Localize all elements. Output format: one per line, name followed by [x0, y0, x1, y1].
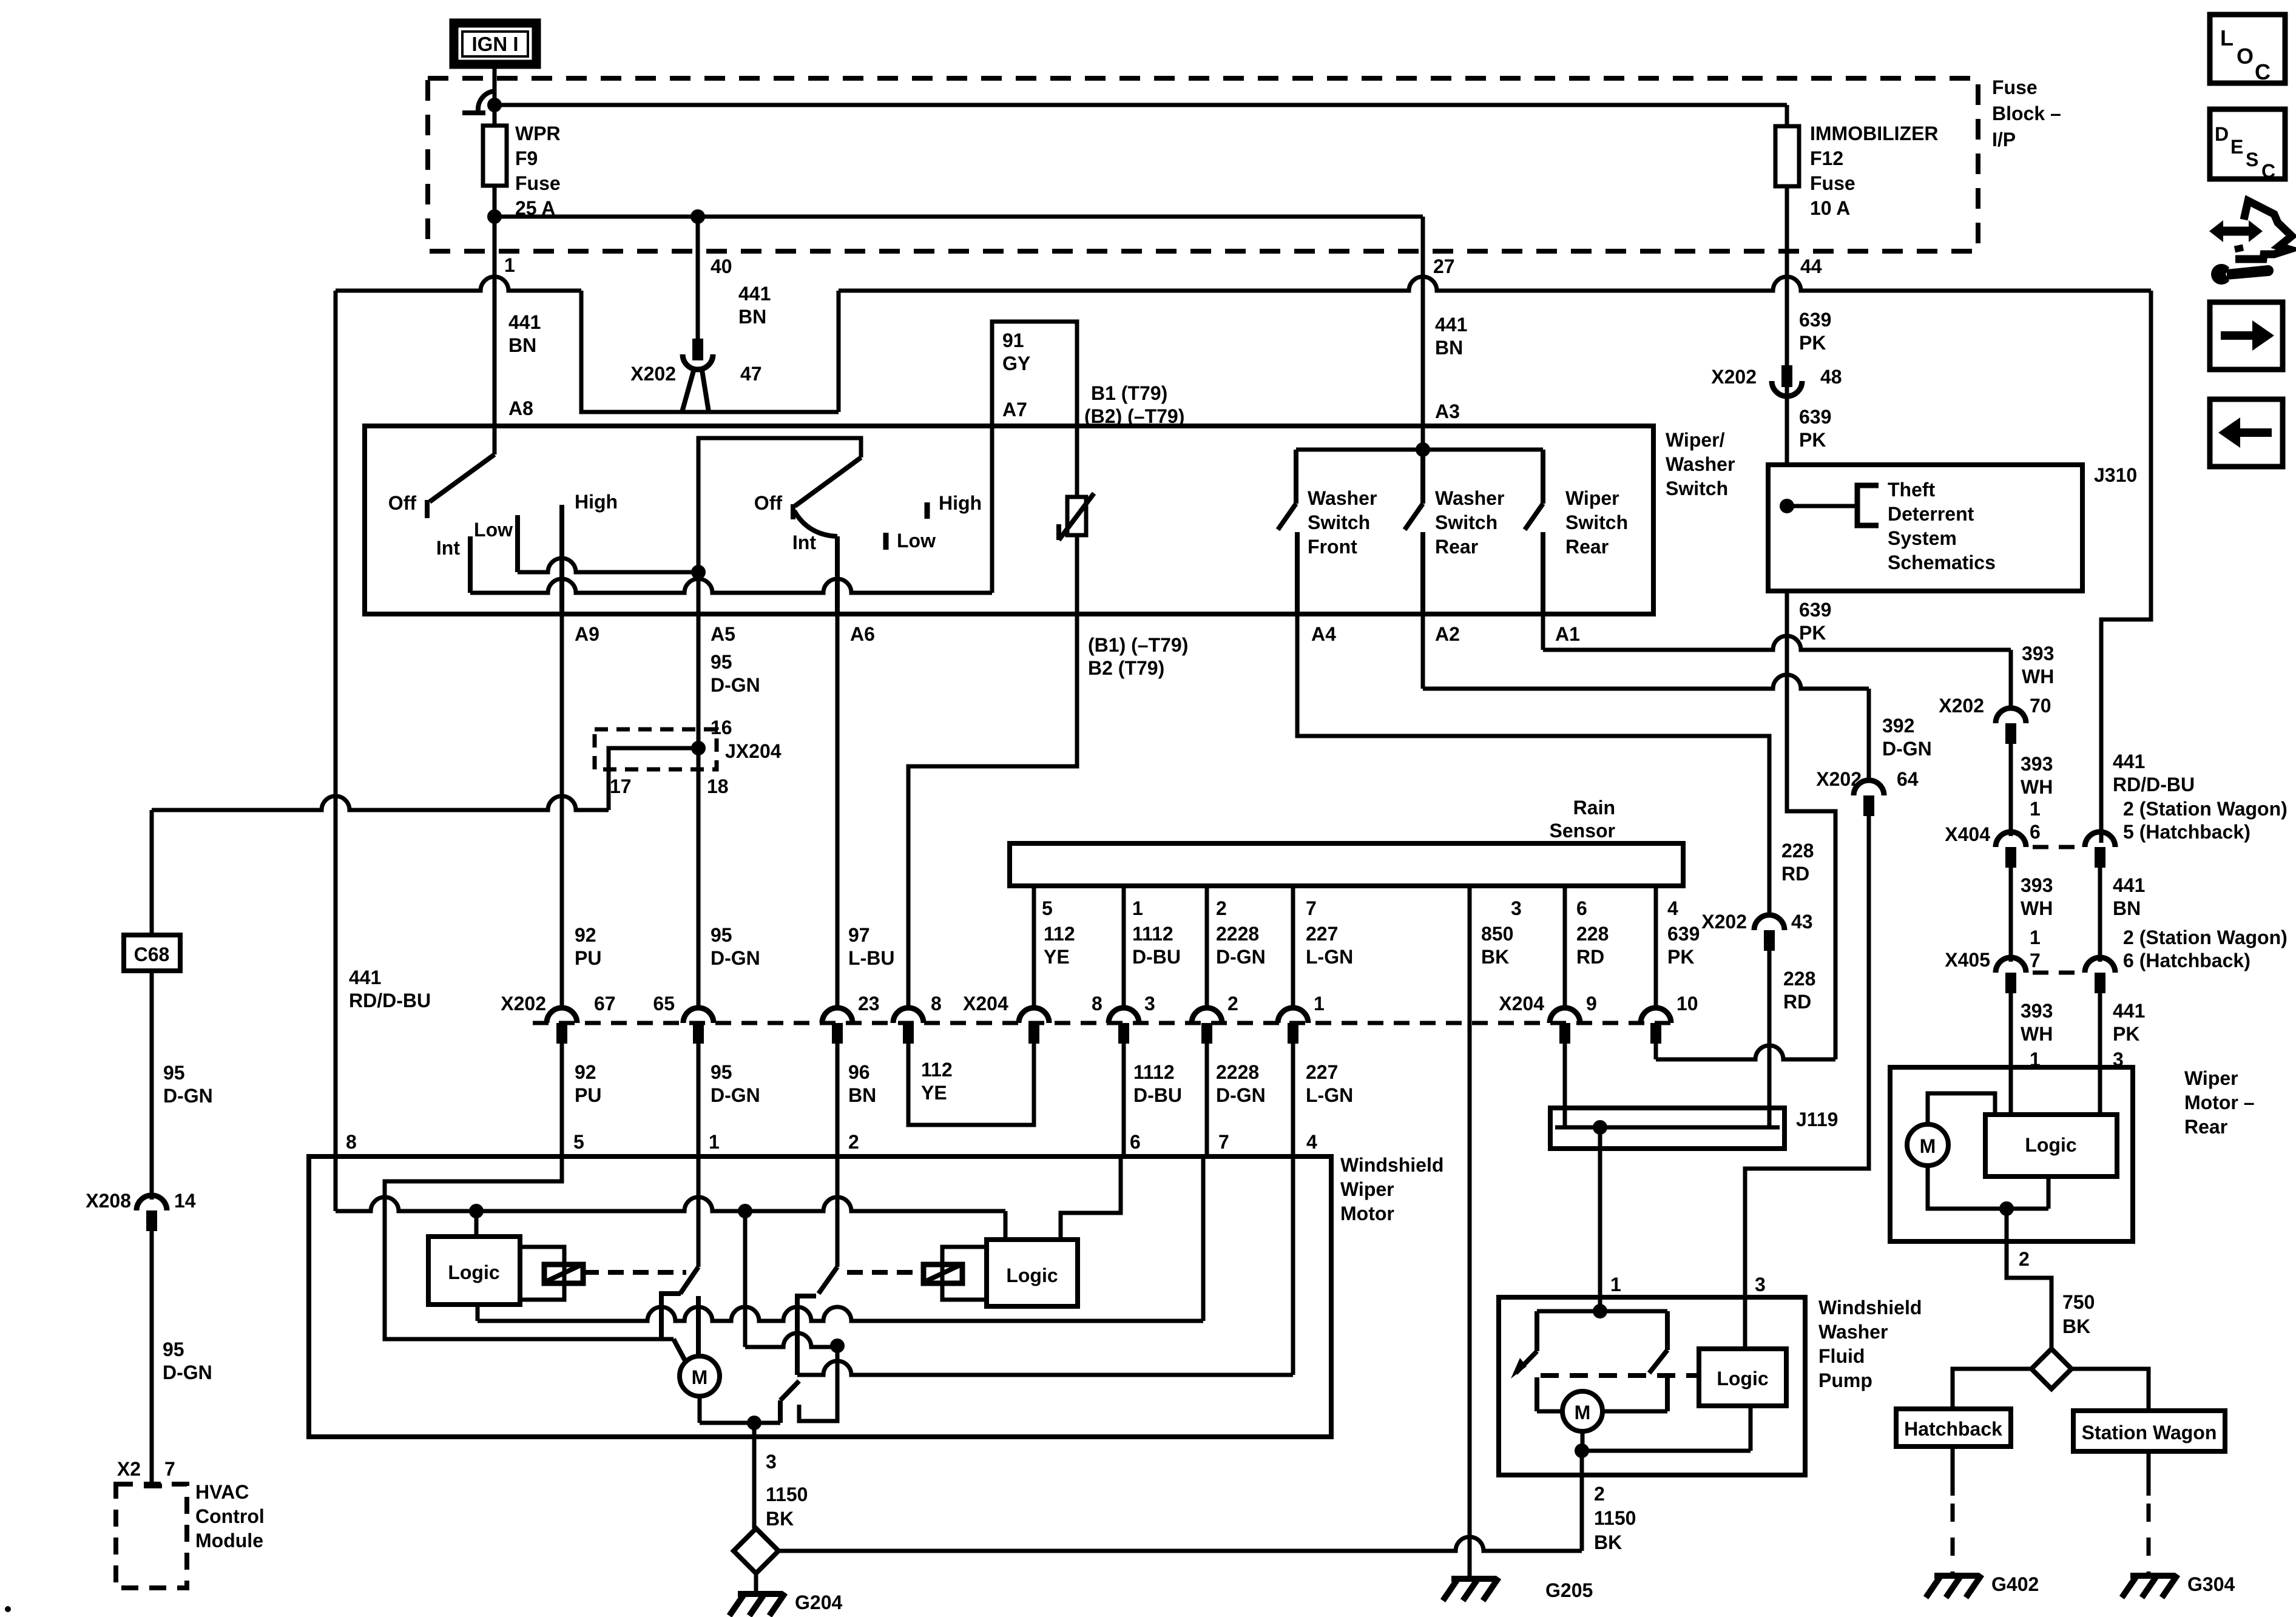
- svg-text:Wiper/: Wiper/: [1666, 429, 1725, 451]
- rain sensor pin 6: [1563, 886, 1567, 1008]
- pin2 to park contact: [799, 1347, 837, 1421]
- svg-text:850: 850: [1481, 923, 1513, 945]
- svg-text:1: 1: [1610, 1274, 1621, 1295]
- svg-text:HVAC: HVAC: [195, 1481, 249, 1503]
- svg-text:Off: Off: [754, 492, 783, 514]
- fuse F12 IMMOBILIZER 10A: [1785, 105, 1789, 126]
- svg-text:E: E: [2230, 136, 2243, 158]
- svg-text:3: 3: [1511, 897, 1522, 919]
- icon previous page arrow: [2210, 399, 2283, 467]
- svg-text:BN: BN: [1435, 337, 1463, 359]
- svg-text:WH: WH: [2021, 776, 2053, 798]
- svg-text:PK: PK: [2113, 1023, 2139, 1045]
- wire 27 441 BN to A3: [1421, 251, 1425, 450]
- svg-text:23: 23: [858, 993, 880, 1014]
- IGN feed bus: [495, 103, 1787, 107]
- svg-text:Rear: Rear: [1565, 536, 1609, 558]
- svg-text:D-GN: D-GN: [711, 1084, 760, 1106]
- thermistor (rain sensor element): [1067, 497, 1086, 535]
- svg-text:PK: PK: [1799, 332, 1826, 354]
- svg-text:1150: 1150: [1594, 1507, 1636, 1529]
- svg-text:A9: A9: [575, 623, 599, 645]
- wire 393 WH to X404: [2009, 744, 2013, 836]
- svg-text:M: M: [692, 1366, 708, 1388]
- svg-text:X202: X202: [1711, 366, 1757, 388]
- svg-text:44: 44: [1800, 255, 1822, 277]
- bus to fuses 27/40: [495, 215, 1423, 219]
- svg-text:1112: 1112: [1132, 923, 1173, 945]
- connector row dashed line: [533, 1021, 1681, 1025]
- rain sensor box: [1010, 843, 1683, 886]
- contact High: [925, 502, 930, 519]
- svg-text:8: 8: [1092, 993, 1102, 1014]
- svg-text:WPR: WPR: [515, 123, 561, 144]
- connector X204 10: [1641, 1008, 1671, 1023]
- pump logic: [1699, 1349, 1786, 1406]
- A7 loop 91 GY: [992, 322, 1077, 497]
- svg-text:X204: X204: [1499, 993, 1544, 1014]
- svg-text:92: 92: [575, 924, 596, 946]
- svg-text:2 (Station Wagon): 2 (Station Wagon): [2123, 927, 2288, 948]
- svg-text:G204: G204: [795, 1592, 842, 1613]
- svg-text:BK: BK: [1594, 1531, 1622, 1553]
- svg-text:RD/D-BU: RD/D-BU: [349, 990, 431, 1011]
- svg-text:Block –: Block –: [1992, 103, 2061, 124]
- svg-text:PK: PK: [1667, 946, 1694, 968]
- wire 393 WH to X405: [2009, 868, 2013, 962]
- branch station wagon: [2071, 1369, 2149, 1411]
- svg-text:X405: X405: [1945, 949, 1990, 971]
- svg-text:112: 112: [1044, 923, 1075, 945]
- svg-text:Washer: Washer: [1666, 453, 1735, 475]
- svg-text:40: 40: [711, 255, 732, 277]
- wire 392 to washer pump 3: [1745, 816, 1869, 1349]
- svg-text:95: 95: [163, 1062, 185, 1084]
- svg-text:Switch: Switch: [1666, 478, 1728, 499]
- splice block J119: [1550, 1108, 1784, 1149]
- svg-text:X2: X2: [117, 1458, 141, 1480]
- detent curve to Int: [794, 511, 837, 536]
- svg-text:Washer: Washer: [1435, 487, 1504, 509]
- wire A4 228 RD: [1297, 614, 1769, 915]
- rain sensor pin 4: [1654, 886, 1658, 1008]
- svg-text:G205: G205: [1545, 1579, 1593, 1601]
- connector X202 47: [692, 339, 703, 360]
- svg-text:PK: PK: [1799, 622, 1826, 644]
- relay 1: [520, 1247, 564, 1300]
- logic module 1: [428, 1237, 520, 1305]
- wire 18 95 D-GN: [697, 748, 701, 1008]
- svg-text:C: C: [2255, 59, 2271, 84]
- fuse block I/P dashed box: [428, 78, 1978, 251]
- svg-text:A5: A5: [711, 623, 735, 645]
- relay 2 body: [942, 1247, 987, 1300]
- svg-text:O: O: [2237, 44, 2254, 69]
- svg-text:6: 6: [1130, 1131, 1141, 1153]
- internal top bus: [334, 1156, 338, 1211]
- svg-text:Module: Module: [195, 1530, 263, 1551]
- svg-text:441: 441: [2113, 1000, 2145, 1022]
- svg-text:6 (Hatchback): 6 (Hatchback): [2123, 950, 2250, 971]
- ground G205: [1451, 1576, 1496, 1582]
- svg-text:C: C: [2261, 160, 2275, 182]
- svg-text:9: 9: [1586, 993, 1597, 1014]
- svg-text:112: 112: [921, 1059, 953, 1081]
- svg-text:5: 5: [573, 1131, 584, 1153]
- svg-text:(B1) (–T79): (B1) (–T79): [1088, 634, 1188, 656]
- svg-text:BK: BK: [1481, 946, 1509, 968]
- svg-text:A8: A8: [508, 397, 533, 419]
- svg-text:M: M: [1920, 1135, 1936, 1157]
- wire 228 RD to J119: [1768, 951, 1772, 1127]
- svg-text:RD: RD: [1576, 946, 1604, 968]
- svg-text:Hatchback: Hatchback: [1904, 1418, 2002, 1440]
- connector X202 65: [683, 1008, 714, 1023]
- svg-text:392: 392: [1882, 715, 1914, 737]
- svg-text:BK: BK: [2062, 1315, 2090, 1337]
- svg-text:65: 65: [653, 993, 675, 1014]
- ground run to G204: [778, 1537, 1582, 1551]
- svg-text:Wiper: Wiper: [1340, 1178, 1394, 1200]
- rain sensor pin 3 850 BK to G205: [1468, 886, 1472, 1578]
- svg-text:228: 228: [1781, 840, 1814, 862]
- low bus to A5: [518, 558, 698, 572]
- svg-text:441: 441: [738, 283, 771, 305]
- svg-text:2: 2: [1227, 993, 1238, 1014]
- wire 44 639 PK: [1785, 186, 1789, 251]
- svg-text:639: 639: [1667, 923, 1700, 945]
- svg-text:A3: A3: [1435, 400, 1460, 422]
- svg-text:Switch: Switch: [1435, 511, 1497, 533]
- svg-text:70: 70: [2030, 695, 2051, 717]
- inline harness C68: [124, 935, 180, 971]
- connector X204 2: [1192, 1008, 1222, 1023]
- svg-text:YE: YE: [1044, 946, 1070, 968]
- svg-text:1: 1: [2030, 798, 2041, 820]
- svg-text:Off: Off: [388, 492, 417, 514]
- connector X404: [1996, 832, 2026, 847]
- wiper/washer switch box: [365, 426, 1653, 614]
- svg-text:6: 6: [2030, 821, 2041, 843]
- svg-text:D-GN: D-GN: [163, 1362, 212, 1383]
- svg-text:D-GN: D-GN: [1216, 1084, 1266, 1106]
- svg-text:A1: A1: [1555, 623, 1580, 645]
- wire A1 639->393 WH: [1541, 614, 1545, 650]
- svg-text:Switch: Switch: [1565, 511, 1628, 533]
- connector X202 48: [1781, 365, 1792, 387]
- wire A7 inside: [990, 426, 994, 593]
- svg-text:IGN I: IGN I: [471, 33, 518, 55]
- rain sensor pin 7: [1291, 886, 1295, 1008]
- svg-text:2228: 2228: [1216, 923, 1259, 945]
- svg-text:3: 3: [766, 1451, 777, 1473]
- wiper switch rear: [1541, 450, 1545, 504]
- washer switch rear: [1420, 450, 1425, 504]
- svg-text:Theft: Theft: [1888, 479, 1936, 501]
- contact Int: [468, 536, 473, 593]
- svg-text:Wiper: Wiper: [2184, 1067, 2238, 1089]
- ground G402: [1951, 1447, 1955, 1496]
- svg-text:2: 2: [1594, 1483, 1605, 1505]
- svg-text:PU: PU: [575, 947, 601, 969]
- motor M: [680, 1356, 720, 1396]
- svg-text:1: 1: [709, 1131, 720, 1153]
- svg-text:GY: GY: [1002, 353, 1030, 374]
- svg-text:Motor: Motor: [1340, 1203, 1394, 1224]
- wire 17 to C68: [150, 810, 154, 935]
- svg-text:2228: 2228: [1216, 1061, 1259, 1083]
- wire to pump pin 1: [1598, 1127, 1602, 1311]
- windshield wiper motor box: [309, 1156, 1331, 1437]
- svg-text:750: 750: [2062, 1291, 2095, 1313]
- svg-text:5: 5: [1042, 897, 1053, 919]
- svg-text:Schematics: Schematics: [1888, 552, 1996, 573]
- park switch feed: [743, 1211, 748, 1347]
- wire 95 D-GN down: [150, 971, 154, 1200]
- svg-text:X202: X202: [1939, 695, 1984, 717]
- svg-text:8: 8: [931, 993, 942, 1014]
- svg-text:7: 7: [1306, 897, 1317, 919]
- HVAC control module dashed box: [116, 1484, 187, 1588]
- stray mark: [5, 1606, 11, 1612]
- svg-text:48: 48: [1820, 366, 1842, 388]
- svg-text:J310: J310: [2094, 464, 2137, 486]
- svg-text:Logic: Logic: [1006, 1264, 1058, 1286]
- svg-text:BN: BN: [848, 1084, 876, 1106]
- svg-text:95: 95: [711, 651, 732, 673]
- svg-text:S: S: [2246, 149, 2258, 170]
- svg-text:227: 227: [1306, 923, 1338, 945]
- svg-text:6: 6: [1576, 897, 1587, 919]
- svg-text:2 (Station Wagon): 2 (Station Wagon): [2123, 798, 2288, 820]
- svg-text:3: 3: [1755, 1274, 1766, 1295]
- svg-text:47: 47: [740, 363, 762, 385]
- connector X202 43: [1754, 915, 1784, 930]
- rear wiper switch arm Off: [698, 438, 861, 614]
- svg-text:Logic: Logic: [2025, 1134, 2076, 1156]
- svg-text:BN: BN: [508, 334, 536, 356]
- pump switch loop: [1537, 1309, 1667, 1314]
- svg-text:BK: BK: [766, 1508, 794, 1530]
- svg-text:PK: PK: [1799, 429, 1826, 451]
- wire 639 PK from fuse 44: [1785, 251, 1789, 465]
- svg-text:97: 97: [848, 924, 870, 946]
- svg-text:L-GN: L-GN: [1306, 1084, 1353, 1106]
- svg-text:393: 393: [2022, 643, 2054, 664]
- connector X204 8: [893, 1008, 923, 1023]
- svg-text:D: D: [2215, 123, 2229, 145]
- svg-text:High: High: [575, 491, 618, 513]
- svg-text:I/P: I/P: [1992, 129, 2016, 150]
- svg-text:Fluid: Fluid: [1818, 1345, 1865, 1367]
- svg-text:1: 1: [2030, 927, 2041, 948]
- svg-text:A2: A2: [1435, 623, 1460, 645]
- svg-text:Washer: Washer: [1308, 487, 1377, 509]
- logic module 2: [987, 1240, 1078, 1306]
- svg-text:228: 228: [1783, 968, 1815, 990]
- svg-text:RD/D-BU: RD/D-BU: [2113, 774, 2195, 795]
- svg-text:Low: Low: [474, 519, 513, 541]
- svg-text:Fuse: Fuse: [1992, 76, 2038, 98]
- svg-text:393: 393: [2021, 753, 2053, 775]
- svg-text:8: 8: [346, 1131, 357, 1153]
- fuse F9 WPR 25A: [493, 68, 497, 126]
- svg-text:Int: Int: [792, 532, 816, 553]
- wire 441 BN: [2098, 868, 2102, 962]
- svg-text:Washer: Washer: [1818, 1321, 1888, 1343]
- svg-text:G402: G402: [1991, 1573, 2039, 1595]
- svg-text:X404: X404: [1945, 823, 1990, 845]
- ground G304: [2147, 1451, 2151, 1496]
- connector X202 67: [547, 1008, 577, 1023]
- svg-text:RD: RD: [1783, 991, 1811, 1013]
- wire 1 441 BN to A8: [493, 251, 497, 454]
- svg-text:D-BU: D-BU: [1133, 1084, 1182, 1106]
- icon LOC: [2210, 15, 2285, 83]
- svg-text:WH: WH: [2021, 897, 2053, 919]
- svg-text:1150: 1150: [766, 1484, 808, 1505]
- svg-text:5 (Hatchback): 5 (Hatchback): [2123, 821, 2250, 843]
- icon DESC: [2210, 109, 2285, 179]
- svg-text:YE: YE: [921, 1082, 947, 1104]
- svg-text:D-GN: D-GN: [1216, 946, 1266, 968]
- svg-text:Switch: Switch: [1308, 511, 1370, 533]
- ignition switch symbol: [478, 91, 496, 110]
- wire A5 95 D-GN to JX204: [697, 614, 701, 748]
- svg-text:Pump: Pump: [1818, 1369, 1872, 1391]
- svg-text:4: 4: [1667, 897, 1678, 919]
- svg-text:Front: Front: [1308, 536, 1357, 558]
- int bus: [470, 579, 992, 593]
- washer fluid pump box: [1499, 1297, 1805, 1475]
- svg-text:96: 96: [848, 1061, 870, 1083]
- wire X204 10 to 639 PK net: [1654, 1044, 1658, 1059]
- svg-text:J119: J119: [1796, 1109, 1838, 1130]
- svg-text:2: 2: [1216, 897, 1227, 919]
- rain sensor pin 5: [1032, 886, 1036, 1008]
- svg-text:27: 27: [1433, 255, 1455, 277]
- svg-text:67: 67: [594, 993, 616, 1014]
- wire 2 1150 BK: [1580, 1451, 1584, 1551]
- svg-text:Rear: Rear: [2184, 1116, 2227, 1138]
- svg-text:10: 10: [1676, 993, 1698, 1014]
- washer switch front: [1296, 448, 1543, 452]
- svg-text:A6: A6: [850, 623, 875, 645]
- JX204 junction box: [595, 729, 717, 769]
- svg-text:B2 (T79): B2 (T79): [1088, 657, 1164, 679]
- svg-text:Sensor: Sensor: [1550, 820, 1615, 842]
- svg-text:441: 441: [508, 311, 541, 333]
- wires to rear wiper motor: [2009, 993, 2013, 1115]
- svg-text:3: 3: [1144, 993, 1155, 1014]
- svg-text:92: 92: [575, 1061, 596, 1083]
- svg-text:18: 18: [707, 775, 729, 797]
- svg-text:X202: X202: [1816, 768, 1862, 790]
- power label IGN I: [454, 23, 536, 64]
- connector X202 64: [1854, 780, 1884, 795]
- svg-text:441: 441: [349, 967, 381, 988]
- svg-text:393: 393: [2021, 874, 2053, 896]
- svg-text:WH: WH: [2021, 1023, 2053, 1045]
- svg-text:441: 441: [2113, 751, 2145, 772]
- motor bottom node: [698, 1396, 702, 1423]
- speed switch (pin1): [697, 1156, 701, 1267]
- svg-text:7: 7: [164, 1458, 175, 1480]
- svg-text:A7: A7: [1002, 399, 1027, 420]
- svg-text:A4: A4: [1311, 623, 1336, 645]
- svg-text:14: 14: [174, 1190, 196, 1212]
- connector X204 9: [1550, 1008, 1580, 1023]
- svg-text:Logic: Logic: [448, 1261, 499, 1283]
- wire 40 441 BN: [696, 217, 700, 340]
- svg-text:Windshield: Windshield: [1340, 1154, 1443, 1176]
- svg-text:1: 1: [1314, 993, 1325, 1014]
- svg-text:7: 7: [2030, 950, 2041, 971]
- svg-text:10 A: 10 A: [1810, 197, 1850, 219]
- svg-text:441: 441: [1435, 314, 1467, 336]
- svg-text:F12: F12: [1810, 147, 1843, 169]
- svg-text:Motor –: Motor –: [2184, 1092, 2255, 1113]
- svg-text:Deterrent: Deterrent: [1888, 503, 1974, 525]
- svg-text:639: 639: [1799, 309, 1831, 331]
- svg-text:D-BU: D-BU: [1132, 946, 1181, 968]
- icon schematic navigation (car+arrows+wrench): [2235, 201, 2292, 259]
- svg-text:228: 228: [1576, 923, 1609, 945]
- pin2 switch: [836, 1156, 840, 1267]
- svg-text:D-GN: D-GN: [163, 1085, 213, 1107]
- wires below connectors to wiper motor: [560, 1044, 564, 1156]
- wire A6: [835, 536, 840, 614]
- svg-text:1112: 1112: [1133, 1061, 1175, 1083]
- svg-text:D-GN: D-GN: [711, 947, 760, 969]
- svg-text:393: 393: [2021, 1000, 2053, 1022]
- connector X204 3: [1109, 1008, 1139, 1023]
- pump motor M: [1562, 1391, 1602, 1431]
- svg-text:B1 (T79): B1 (T79): [1091, 382, 1167, 404]
- splice pack diamond: [734, 1528, 778, 1573]
- svg-text:D-GN: D-GN: [1882, 738, 1932, 760]
- svg-text:91: 91: [1002, 329, 1024, 351]
- svg-text:Low: Low: [897, 530, 936, 552]
- svg-text:1: 1: [504, 254, 515, 276]
- pin 5 branch to motor: [385, 1156, 674, 1339]
- rear motor M: [1907, 1124, 1948, 1166]
- wiper motor rear box: [1890, 1067, 2133, 1241]
- svg-text:X204: X204: [963, 993, 1008, 1014]
- wire A2 392 D-GN: [1421, 614, 1425, 689]
- 112 YE jumper: [908, 1044, 1034, 1125]
- svg-text:Wiper: Wiper: [1565, 487, 1619, 509]
- svg-text:G304: G304: [2187, 1573, 2235, 1595]
- svg-text:Station Wagon: Station Wagon: [2082, 1422, 2217, 1443]
- svg-text:D-GN: D-GN: [711, 674, 760, 696]
- svg-text:7: 7: [1218, 1131, 1229, 1153]
- svg-text:95: 95: [711, 1061, 732, 1083]
- svg-text:X208: X208: [86, 1190, 131, 1212]
- svg-text:(B2) (–T79): (B2) (–T79): [1084, 405, 1184, 427]
- svg-text:X202: X202: [501, 993, 546, 1014]
- wire A9 92 PU: [560, 614, 564, 1008]
- ground G204: [738, 1591, 783, 1597]
- icon next page arrow: [2210, 302, 2283, 370]
- hatchback box: [1896, 1409, 2011, 1447]
- junction: [487, 98, 502, 112]
- svg-text:PU: PU: [575, 1084, 601, 1106]
- svg-text:639: 639: [1799, 599, 1831, 621]
- svg-text:Rain: Rain: [1573, 797, 1615, 819]
- svg-text:System: System: [1888, 527, 1957, 549]
- pin4 line: [797, 1361, 1293, 1375]
